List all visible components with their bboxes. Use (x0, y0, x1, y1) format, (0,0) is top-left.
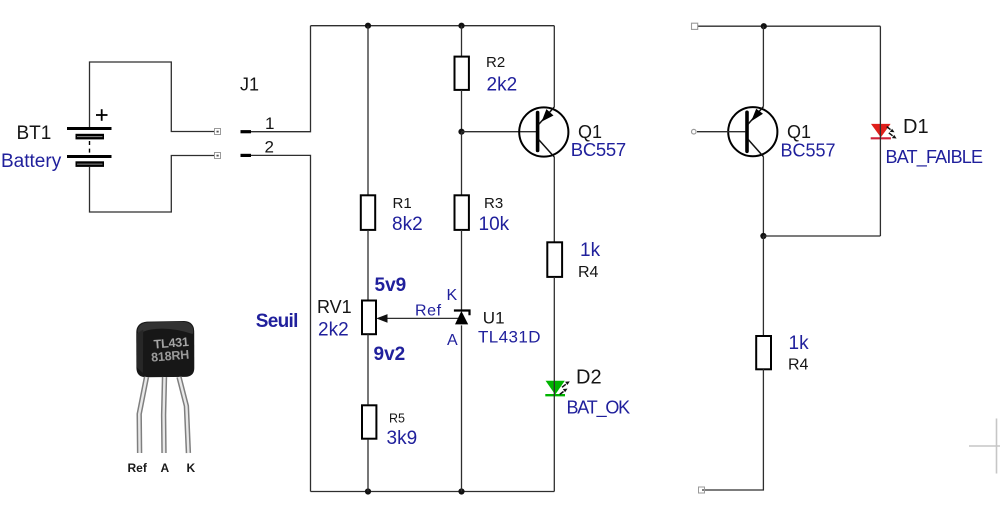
svg-text:BT1: BT1 (17, 123, 52, 144)
resistor R1 (361, 195, 375, 230)
pad upper wire end (215, 129, 221, 135)
svg-text:D1: D1 (903, 116, 929, 138)
wire right top to Q1 emitter (762, 26, 764, 106)
junction top rail R2 (458, 23, 464, 29)
wire base node to Q1 (462, 131, 537, 133)
svg-text:3k9: 3k9 (387, 428, 418, 449)
wire R1 to RV1 (367, 230, 369, 301)
svg-text:RV1: RV1 (317, 297, 352, 317)
wire RV1 to R5 (367, 334, 369, 404)
svg-text:Ref: Ref (415, 303, 442, 320)
wire U1 to bottom (461, 325, 463, 491)
wire J1 pin2 to main (251, 155, 311, 491)
svg-text:K: K (187, 461, 196, 475)
resistor R4 (middle) (547, 242, 562, 277)
junction bottom rail RV branch (365, 488, 371, 494)
resistor R5 (362, 405, 376, 438)
svg-text:10k: 10k (479, 214, 510, 235)
wire R3 to U1 (461, 230, 463, 311)
resistor R3 (455, 195, 469, 230)
resistor R4 (right) (756, 336, 771, 369)
wire R2 to junction (461, 90, 463, 132)
svg-text:K: K (447, 287, 458, 304)
svg-text:8k2: 8k2 (392, 214, 423, 235)
wire right mid to R4 (762, 236, 764, 336)
transistor Q1 (middle) (519, 107, 568, 157)
svg-text:818RH: 818RH (151, 348, 190, 365)
LED D2 green (545, 381, 570, 395)
svg-text:Ref: Ref (128, 461, 148, 475)
svg-text:R1: R1 (393, 195, 412, 212)
svg-text:TL431D: TL431D (478, 328, 541, 347)
svg-text:R4: R4 (578, 264, 599, 281)
TO-92 package photo (136, 321, 194, 377)
wire top to R1 (367, 26, 369, 196)
wire mid cross to D1 branch (763, 235, 880, 237)
wire top to R2 (461, 26, 463, 57)
junction right top (761, 23, 767, 29)
svg-text:BAT_FAIBLE: BAT_FAIBLE (886, 147, 984, 168)
svg-text:9v2: 9v2 (374, 344, 406, 365)
junction base node (458, 129, 464, 135)
TO-92 legs (139, 377, 188, 453)
wire R5 to bottom (367, 439, 369, 491)
wire top rail to Q1 emitter (553, 26, 555, 107)
svg-text:1k: 1k (789, 333, 810, 354)
svg-text:U1: U1 (483, 309, 505, 328)
svg-text:1k: 1k (580, 240, 601, 261)
battery BT1 (67, 109, 112, 185)
svg-text:Battery: Battery (1, 151, 62, 172)
svg-text:2: 2 (265, 138, 274, 157)
wire Q1 collector to R4 (553, 157, 555, 242)
pad right base (692, 129, 697, 134)
svg-text:A: A (447, 332, 458, 349)
wire J1 pin1 to main (251, 26, 311, 132)
pad lower wire end (215, 153, 221, 159)
svg-text:D2: D2 (576, 367, 602, 389)
svg-text:J1: J1 (240, 75, 259, 95)
svg-text:Seuil: Seuil (256, 311, 298, 332)
junction top rail R1 (365, 23, 371, 29)
svg-text:BC557: BC557 (781, 141, 836, 161)
wire top rail (311, 25, 555, 27)
potentiometer RV1 (362, 301, 376, 335)
transistor Q1 (right) (728, 107, 777, 157)
svg-text:BAT_OK: BAT_OK (567, 398, 631, 419)
wire D1 branch vertical (879, 26, 881, 236)
svg-text:R2: R2 (486, 54, 505, 71)
svg-text:A: A (161, 461, 170, 475)
connector J1 (241, 132, 252, 156)
junction bottom rail U1 branch (458, 488, 464, 494)
wire battery top loop (90, 62, 215, 132)
svg-text:R4: R4 (788, 357, 809, 374)
svg-text:R3: R3 (484, 195, 503, 212)
right circuit top rail (698, 25, 880, 27)
junction right mid (760, 233, 766, 239)
wire R4 right to bottom (702, 369, 763, 490)
sheet corner marker (969, 419, 1000, 474)
LED D1 red (871, 124, 897, 139)
wire bottom rail (311, 491, 555, 493)
wire base stub (right) (697, 131, 746, 133)
svg-text:Q1: Q1 (787, 122, 811, 142)
svg-text:R5: R5 (389, 411, 405, 425)
pad right top (692, 23, 698, 29)
wire junction to R3 (461, 132, 463, 196)
shunt regulator U1 TL431 (454, 311, 470, 325)
svg-text:5v9: 5v9 (375, 275, 407, 296)
svg-text:2k2: 2k2 (318, 320, 349, 341)
pad right bottom (699, 487, 705, 493)
wire R4 through D2 to bottom rail (553, 277, 555, 492)
RV1 wiper arrow (376, 314, 461, 323)
resistor R2 (455, 57, 469, 90)
wire Q1 right collector down (762, 157, 764, 236)
wire battery bottom loop (90, 156, 215, 213)
svg-text:1: 1 (265, 114, 274, 133)
svg-text:BC557: BC557 (571, 139, 626, 160)
svg-text:2k2: 2k2 (487, 75, 518, 96)
